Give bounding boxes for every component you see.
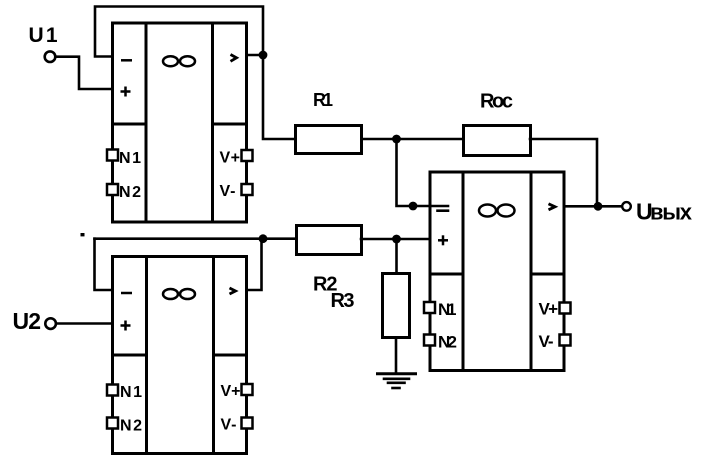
svg-text:V+: V+ bbox=[539, 300, 559, 319]
svg-text:U2: U2 bbox=[13, 308, 42, 334]
svg-text:N2: N2 bbox=[120, 418, 142, 435]
svg-text:V-: V- bbox=[220, 183, 236, 200]
svg-text:V-: V- bbox=[539, 332, 554, 351]
svg-text:N1: N1 bbox=[120, 384, 142, 401]
svg-text:вых: вых bbox=[650, 200, 693, 225]
svg-text:N1: N1 bbox=[438, 300, 457, 319]
svg-text:Roc: Roc bbox=[480, 91, 513, 113]
svg-text:U1: U1 bbox=[29, 24, 58, 47]
svg-text:R3: R3 bbox=[331, 290, 355, 312]
svg-text:V+: V+ bbox=[220, 150, 241, 167]
svg-text:N2: N2 bbox=[119, 184, 141, 201]
svg-text:R1: R1 bbox=[313, 90, 333, 110]
svg-text:N2: N2 bbox=[438, 333, 457, 352]
svg-text:N1: N1 bbox=[119, 150, 141, 167]
svg-text:V+: V+ bbox=[221, 383, 241, 400]
svg-text:V-: V- bbox=[221, 417, 237, 434]
